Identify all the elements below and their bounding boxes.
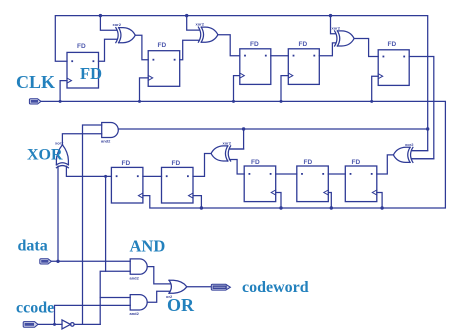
node junction FD1 clock (59, 100, 62, 103)
svg-text:FD: FD (304, 159, 313, 166)
wire XOR4 output to AND1 input B (62, 134, 101, 145)
wire row2 C clock stub (276, 193, 281, 209)
wire FD2 clock stub (140, 78, 149, 102)
label FD above FD8 (251, 159, 260, 166)
node junction XOR3 top input on feedback wire (329, 14, 332, 17)
label FD above FD10 (352, 159, 361, 166)
label below OR1 (166, 294, 173, 299)
svg-text:FD: FD (77, 43, 86, 50)
wire FD5 Q output to XOR6 input B (409, 57, 434, 159)
port ccode (23, 322, 38, 328)
svg-text:FD: FD (299, 41, 308, 48)
wire AND3 output to OR1 input B (147, 291, 170, 302)
wire row2 D Q to C D (276, 173, 297, 175)
svg-text:xor2: xor2 (196, 22, 205, 27)
wire FD3 clock stub (234, 76, 240, 102)
wire data to AND2 input A (51, 260, 130, 262)
label FD large cyan (80, 64, 102, 83)
svg-text:FD: FD (80, 64, 102, 83)
node junction feedback vertical right (426, 127, 429, 130)
svg-text:FD: FD (172, 160, 181, 167)
svg-text:FD: FD (250, 41, 259, 48)
label above XOR3 (332, 26, 341, 31)
label codeword (242, 279, 309, 296)
label FD above FD7 (172, 160, 181, 167)
wire FD1 Q output to XOR1 input B (99, 39, 117, 61)
node junction FD5 clock (370, 100, 373, 103)
wire AND3 input A stub (100, 297, 130, 299)
wire FD1 clock stub (60, 81, 67, 102)
label FD above FD5 (388, 41, 397, 48)
wire inverter output along bottom (74, 323, 100, 325)
wire ccode branch to AND3 input B (55, 305, 131, 324)
svg-text:FD: FD (251, 159, 260, 166)
flip-flop FD6 row2 A (111, 167, 142, 203)
wire branch to XOR5 input A (230, 129, 243, 149)
label OR (167, 295, 195, 315)
svg-text:xor2: xor2 (332, 26, 341, 31)
wire branch up to AND1 input A (83, 125, 102, 324)
wire row2 B clock stub (193, 196, 201, 208)
wire AND2 input B horizontal from inverter net vertical (100, 271, 130, 324)
svg-text:AND: AND (130, 237, 166, 256)
flip-flop FD8 row2 C (244, 166, 276, 202)
label FD above FD1 (77, 43, 86, 50)
node junction XOR2 top input on feedback wire (185, 14, 188, 17)
wire row2 B Q to A D (143, 175, 162, 177)
svg-text:and2: and2 (130, 276, 140, 281)
label below AND3 (130, 311, 140, 316)
node junction FD4 clock (280, 100, 283, 103)
wire ccode to inverter input (38, 323, 62, 325)
wire OR1 output to codeword port (187, 286, 212, 288)
flip-flop FD3 (240, 49, 271, 85)
label AND (130, 237, 166, 256)
xor gate XOR2 (198, 27, 218, 42)
port data (40, 259, 52, 264)
xor gate XOR1 (116, 28, 136, 43)
wire XOR5 input B from row2 C Q (230, 160, 245, 175)
wire FD4 Q output to XOR3 input B (319, 43, 335, 56)
wire XOR5 output to row2 B D (193, 154, 211, 177)
label below AND1 (101, 139, 111, 144)
wire row2 E clock stub (377, 193, 382, 209)
label above XOR6 (405, 142, 414, 147)
flip-flop FD5 (378, 50, 409, 86)
wire feedback to XOR3 input A (331, 16, 336, 34)
label FD above FD4 (299, 41, 308, 48)
svg-text:data: data (18, 237, 48, 254)
svg-text:FD: FD (388, 41, 397, 48)
wire branch down to AND2 input B (105, 176, 107, 271)
xor gate XOR5 row2 left pointing (211, 146, 231, 161)
svg-text:and2: and2 (101, 139, 111, 144)
wire feedback top net to FD1 D input (55, 16, 427, 151)
and gate AND1 enable (102, 123, 119, 138)
wire row2 FF A Q to XOR4 input B and branch down (66, 166, 111, 176)
label FD above FD6 (122, 160, 131, 167)
node junction FD3 clock (232, 100, 235, 103)
flip-flop FD7 row2 B (162, 167, 194, 203)
wire XOR1 output to FD2 D input (135, 35, 148, 60)
flip-flop FD1 (67, 52, 99, 88)
wire FD5 clock stub (372, 76, 379, 101)
svg-text:FD: FD (122, 160, 131, 167)
node junction E clock on rail (380, 206, 383, 209)
wire FD2 Q output to XOR2 input B (180, 40, 199, 60)
xor gate XOR3 (335, 31, 355, 46)
label FD above FD2 (158, 42, 167, 49)
wire feedback to XOR2 input A (187, 16, 199, 31)
node junction ccode branch (53, 323, 56, 326)
node junction branch (104, 175, 107, 178)
label FD above FD3 (250, 41, 259, 48)
label below AND2 (130, 276, 140, 281)
svg-text:and2: and2 (130, 311, 140, 316)
and gate AND3 (130, 295, 147, 310)
port CLK (29, 99, 41, 104)
label CLK (16, 72, 55, 92)
wire FD3 Q output to FD4 D input (271, 55, 289, 57)
xor gate XOR6 row2 right pointing left (393, 147, 413, 162)
svg-text:ccode: ccode (16, 299, 54, 316)
port codeword (211, 284, 230, 290)
wire row2 E Q to D D (328, 173, 345, 175)
wire XOR6 input B stub (412, 158, 434, 160)
wire XOR3 output to FD5 D input (354, 39, 378, 57)
label data (18, 237, 48, 254)
wire FD4 clock stub (281, 76, 288, 102)
svg-text:XOR: XOR (27, 147, 63, 164)
node junction FD2 clock (138, 100, 141, 103)
wire AND2 output to OR1 input A (147, 267, 170, 284)
svg-text:CLK: CLK (16, 72, 55, 92)
flip-flop FD2 (148, 51, 180, 87)
label above XOR4 (55, 141, 64, 146)
wire CLK net with clock rail row1 and row2 (41, 101, 445, 208)
wire XOR5 input A stub (230, 148, 244, 150)
label FD above FD9 (304, 159, 313, 166)
and gate AND2 (130, 259, 147, 274)
or gate OR1 (169, 280, 187, 293)
inverter INV1 (62, 320, 74, 329)
svg-text:codeword: codeword (242, 279, 309, 296)
node junction data (56, 260, 59, 263)
label above XOR1 (113, 22, 122, 27)
wire data up to XOR4 input A (57, 166, 59, 261)
wire XOR6 output to row2 E D (377, 155, 394, 174)
node junction branch XOR5 (242, 127, 245, 130)
node junction XOR1 top input on feedback wire (99, 14, 102, 17)
label above XOR5 (223, 141, 232, 146)
svg-text:FD: FD (158, 42, 167, 49)
wire AND1 output feedback line across middle (118, 128, 427, 130)
svg-text:xor2: xor2 (405, 142, 414, 147)
node junction B clock on rail (200, 206, 203, 209)
node junction D clock on rail (330, 206, 333, 209)
flip-flop FD4 (288, 49, 319, 85)
svg-text:xor2: xor2 (113, 22, 122, 27)
xor gate XOR4 vertical near label (56, 145, 68, 168)
flip-flop FD10 row2 E (345, 166, 377, 202)
svg-text:xor2: xor2 (223, 141, 232, 146)
wire XOR6 input A stub (412, 150, 428, 152)
label ccode (16, 299, 54, 316)
label XOR (27, 147, 63, 164)
wire feedback to XOR1 input A (100, 16, 116, 31)
wire XOR2 output to FD3 D input (218, 35, 240, 56)
flip-flop FD9 row2 D (297, 166, 329, 202)
label above XOR2 (196, 22, 205, 27)
wire row2 D clock stub (328, 193, 331, 209)
node junction C clock on rail (279, 206, 282, 209)
svg-text:FD: FD (352, 159, 361, 166)
svg-text:OR: OR (167, 295, 195, 315)
